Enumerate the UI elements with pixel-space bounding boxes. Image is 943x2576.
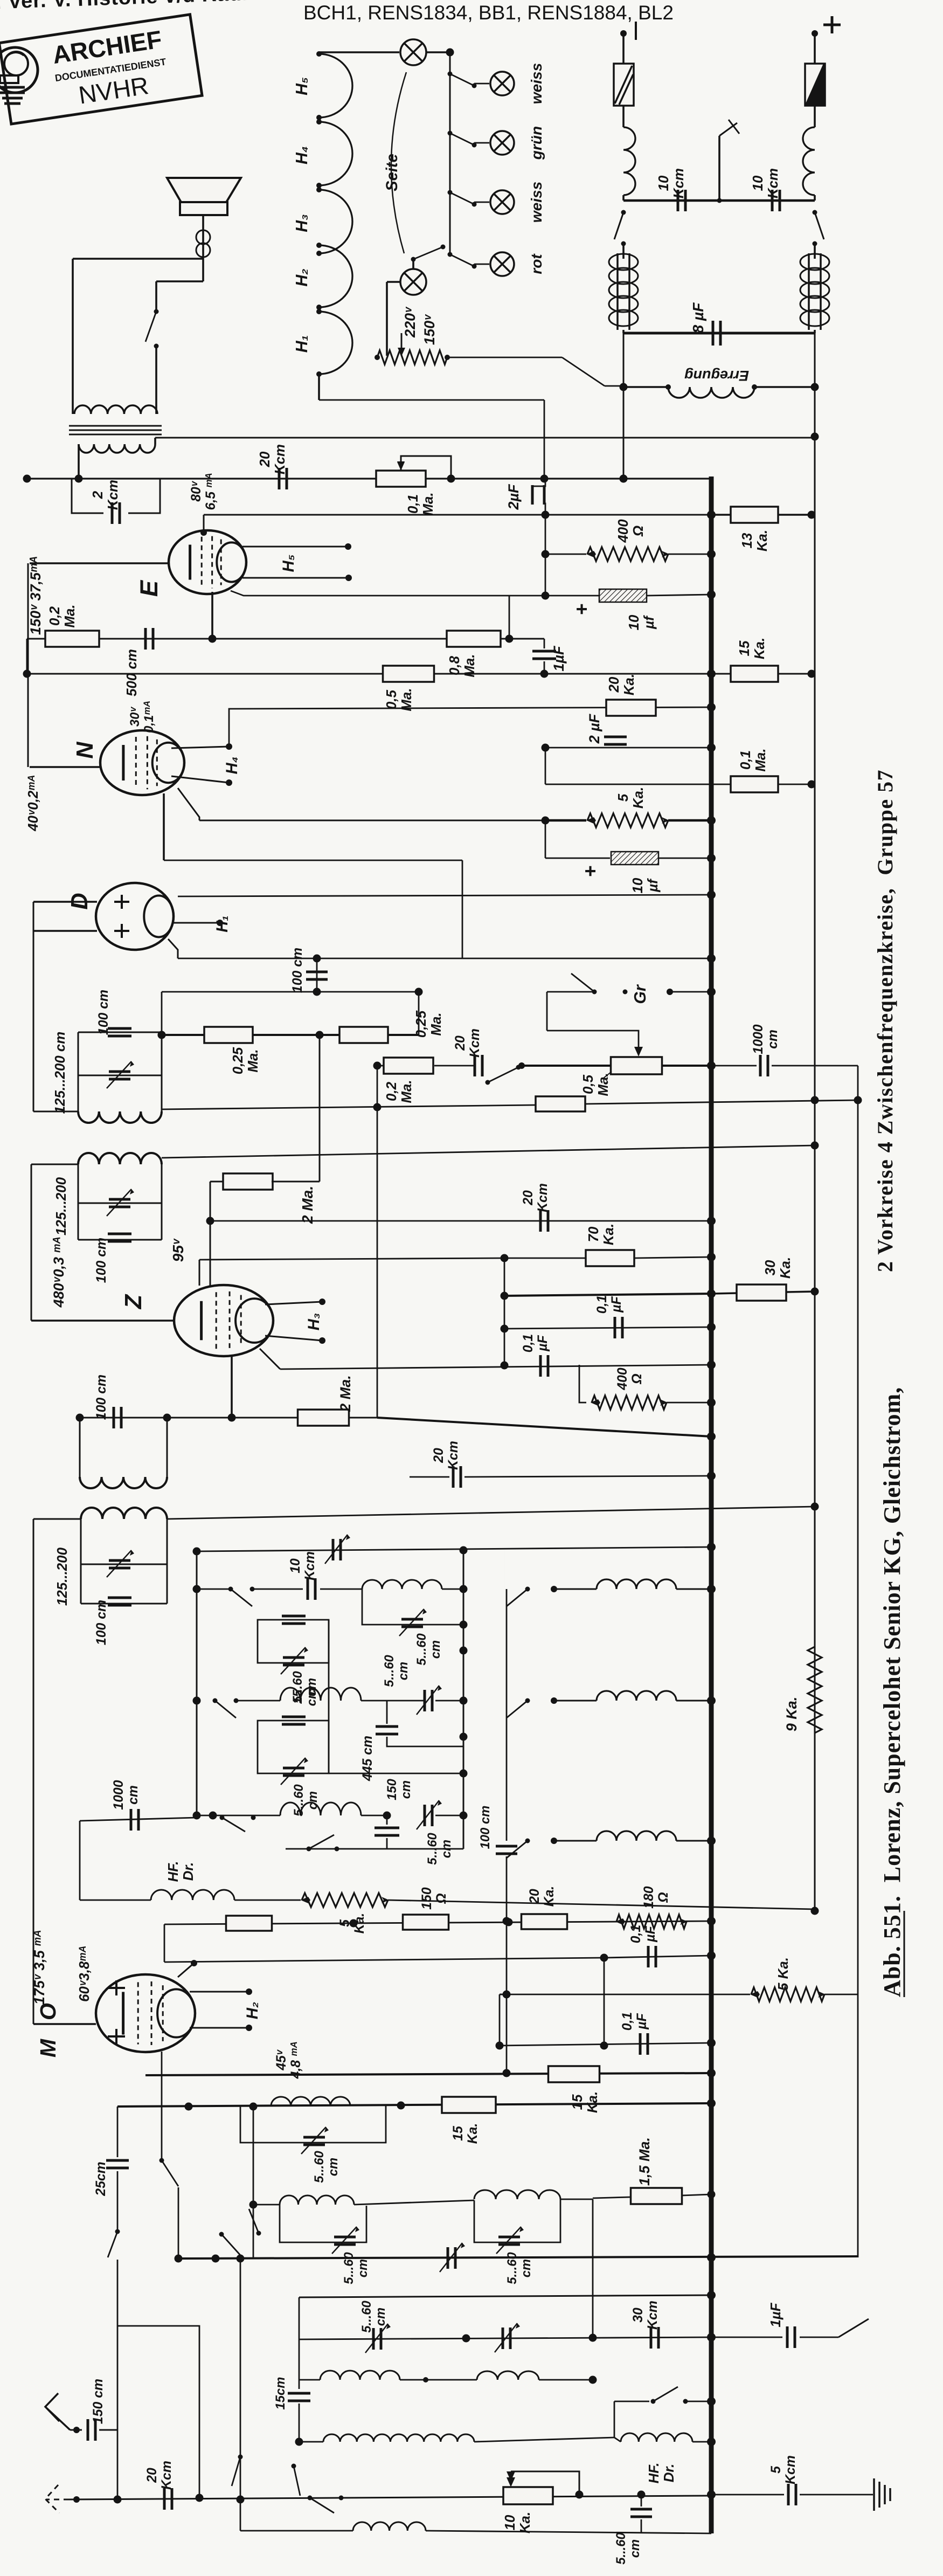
wire band rail (178, 2256, 858, 2259)
junction (23, 475, 31, 483)
junction (163, 1414, 171, 1422)
wire (814, 33, 816, 64)
junction (708, 2333, 716, 2342)
oscillator coil (280, 1688, 361, 1701)
svg-text:1µF: 1µF (551, 645, 567, 672)
switch speaker (154, 309, 159, 314)
wire (585, 1100, 858, 1104)
junction (501, 1362, 509, 1370)
junction (707, 669, 716, 678)
resistor (45, 631, 99, 647)
svg-text:N: N (72, 742, 98, 759)
svg-text:125...200: 125...200 (54, 1177, 69, 1235)
svg-text:Ma.: Ma. (596, 1073, 611, 1096)
junction (228, 1414, 236, 1422)
wire (171, 776, 229, 783)
coil (79, 444, 155, 453)
wire (78, 1075, 162, 1076)
junction (246, 1988, 252, 1995)
resistor (611, 1057, 662, 1074)
wire (197, 1815, 280, 1817)
fuse Si1 (614, 64, 634, 106)
coil (353, 2522, 426, 2531)
trimmer capacitor (498, 2237, 520, 2244)
wire (155, 281, 157, 310)
wire (79, 1821, 81, 1900)
tube (169, 530, 246, 594)
resistor (226, 1916, 272, 1931)
wire (418, 992, 420, 1035)
svg-text:0,1: 0,1 (629, 1925, 643, 1943)
svg-text:Kcm: Kcm (273, 444, 288, 474)
wire (545, 784, 812, 785)
wire (400, 2379, 477, 2381)
svg-text:+: + (579, 865, 601, 876)
svg-text:Seite: Seite (384, 154, 401, 191)
wire (30, 562, 169, 564)
svg-text:2 Ma.: 2 Ma. (337, 1375, 353, 1412)
label 10 µf (627, 614, 657, 630)
svg-text:150ᵛ: 150ᵛ (421, 314, 438, 345)
svg-text:H₄: H₄ (224, 757, 241, 775)
wire (667, 1402, 711, 1404)
junction (707, 816, 716, 825)
resistor (606, 700, 656, 716)
capacitor (713, 321, 720, 346)
wire (299, 2404, 300, 2442)
wire (500, 2043, 711, 2046)
svg-text:5: 5 (769, 2465, 783, 2474)
svg-text:0,5: 0,5 (581, 1074, 596, 1094)
wire (155, 346, 157, 414)
junction (460, 1733, 468, 1741)
wire (426, 51, 450, 53)
HF choke 2 (621, 2433, 692, 2442)
wire (386, 1838, 388, 1849)
svg-text:Kcm: Kcm (671, 168, 687, 198)
wire (814, 1910, 815, 1911)
label HF. Dr. (647, 2463, 677, 2484)
label 0,25 Ma. (231, 1047, 261, 1074)
loudspeaker (167, 178, 241, 215)
switch left branch (621, 210, 626, 215)
wire (426, 2531, 711, 2533)
label 5...60 cm (290, 1671, 319, 1703)
wire bias rail (504, 1294, 711, 1296)
label 5...60 cm (425, 1833, 454, 1865)
padder block A (258, 1620, 329, 1663)
resistor (731, 776, 778, 792)
wire (682, 2194, 711, 2195)
wire (622, 106, 625, 127)
svg-text:Ma.: Ma. (63, 604, 78, 627)
label 1000 cm (112, 1780, 141, 1810)
wire (81, 1564, 167, 1565)
capacitor (772, 190, 780, 211)
junction (540, 670, 549, 678)
junction (158, 1031, 166, 1039)
switch (308, 2496, 313, 2501)
svg-text:5 Ka.: 5 Ka. (776, 1957, 791, 1991)
trimmer capacitor (334, 2237, 356, 2244)
junction (345, 575, 352, 581)
wire (26, 639, 28, 674)
wire (605, 385, 623, 387)
junction (460, 1546, 468, 1555)
junction (397, 2102, 405, 2110)
capacitor (615, 1317, 622, 1338)
wire (197, 1589, 231, 1590)
svg-text:Kcm: Kcm (446, 1441, 461, 1470)
wire (190, 1991, 249, 1993)
wire (78, 1032, 162, 1033)
wire (711, 2337, 782, 2338)
trimmer capacitor (401, 1619, 423, 1627)
wire pickup column (377, 1066, 378, 1418)
junction (708, 817, 716, 825)
svg-text:H₂: H₂ (293, 268, 311, 286)
junction (503, 2069, 511, 2077)
junction (620, 475, 628, 483)
junction (75, 475, 83, 483)
svg-text:H₁: H₁ (214, 915, 231, 932)
wire (202, 215, 204, 281)
wire (447, 357, 562, 358)
stamp logo (0, 47, 38, 103)
svg-text:Kcm: Kcm (646, 2301, 660, 2330)
wire (622, 330, 625, 333)
resistor (442, 2097, 496, 2113)
svg-text:0,1ᵐᴬ: 0,1ᵐᴬ (142, 701, 156, 733)
label 20 Kcm (432, 1441, 461, 1470)
junction (503, 1991, 511, 1999)
svg-text:15: 15 (290, 1689, 305, 1704)
wire detector output rail (162, 1034, 419, 1036)
resistor (587, 547, 668, 561)
wire (434, 1065, 474, 1067)
wire (622, 254, 625, 259)
wire (156, 280, 203, 282)
junction (707, 1323, 716, 1331)
resistor (586, 1250, 634, 1266)
heater H4 (319, 122, 352, 185)
junction (811, 1288, 819, 1296)
trimmer capacitor (333, 1539, 341, 1560)
label 5...60 cm (342, 2252, 370, 2284)
svg-text:500 cm: 500 cm (124, 649, 140, 696)
svg-text:15: 15 (570, 2094, 585, 2110)
wire (634, 1257, 711, 1258)
wire (504, 1327, 711, 1329)
junction (226, 779, 232, 786)
junction (707, 2397, 716, 2406)
svg-text:0,25: 0,25 (231, 1047, 246, 1074)
label 15 Ka. (570, 2091, 600, 2113)
wire to bus (377, 1418, 711, 1437)
svg-text:Ω: Ω (656, 1892, 671, 1903)
junction (707, 1585, 716, 1593)
junction (193, 1585, 201, 1593)
wire AVC to IF2 (162, 1145, 815, 1158)
wire (319, 51, 399, 53)
svg-text:H₄: H₄ (293, 146, 311, 164)
svg-text:Kcm: Kcm (783, 2455, 798, 2484)
coil (151, 1890, 234, 1900)
wire (117, 2107, 119, 2157)
wire screen Z (199, 1258, 504, 1260)
junction (237, 2496, 245, 2504)
wire (499, 1994, 501, 2046)
junction (462, 2335, 470, 2343)
label 20 Kcm (521, 1183, 550, 1212)
junction (501, 1325, 509, 1333)
resistor (731, 507, 778, 523)
wire (544, 400, 545, 479)
wire (199, 1260, 200, 1286)
junction (505, 635, 514, 643)
capacitor (279, 468, 287, 489)
antenna coil (320, 2371, 400, 2380)
wire (236, 1700, 280, 1702)
label 0,1 Ma. (406, 492, 436, 515)
svg-text:1µF: 1µF (768, 2302, 783, 2327)
switch lamp row (448, 190, 453, 195)
capacitor (308, 1578, 315, 1600)
wire grid4 M (164, 1958, 604, 1962)
trimmer capacitor (425, 1690, 432, 1711)
wire (99, 2429, 117, 2431)
ground (874, 2478, 890, 2511)
wire (670, 991, 711, 993)
trimmer capacitor (448, 2247, 455, 2269)
junction (423, 2377, 428, 2382)
wire (474, 142, 489, 144)
svg-text:Gr: Gr (632, 984, 649, 1004)
wire (410, 1476, 449, 1478)
wire AVC rail (199, 820, 545, 821)
wire (614, 2437, 621, 2442)
svg-text:220ᵛ: 220ᵛ (402, 306, 418, 338)
junction (707, 2291, 716, 2299)
svg-text:5...60: 5...60 (614, 2532, 628, 2565)
resistor (339, 1027, 388, 1043)
svg-text:8 µF: 8 µF (690, 302, 706, 334)
label 5...60 cm (382, 1655, 411, 1687)
diode plates (114, 895, 129, 938)
junction (600, 1954, 608, 1962)
capacitor (108, 1598, 131, 1605)
junction (295, 2438, 303, 2446)
label 30ᵛ 0,1ᵐᴬ (128, 701, 156, 733)
svg-text:Ω: Ω (630, 1373, 644, 1384)
wire screen divider vertical (545, 515, 546, 596)
svg-text:125...200: 125...200 (55, 1547, 70, 1606)
wire (210, 1182, 211, 1221)
svg-text:Ka.: Ka. (752, 638, 767, 659)
label 5...60 cm (505, 2252, 533, 2284)
wire (79, 1418, 81, 1477)
label 30 Ka. (763, 1257, 793, 1279)
wire (33, 2023, 96, 2025)
junction (518, 1062, 525, 1069)
wire antenna rail (167, 1507, 815, 1519)
wire (386, 1815, 388, 1825)
switch (413, 247, 443, 259)
wire (544, 503, 545, 515)
junction (175, 2255, 183, 2263)
wire (318, 52, 320, 54)
junction (542, 550, 550, 558)
junction (589, 2334, 597, 2342)
wire (658, 858, 711, 859)
wire lamp selector (449, 52, 451, 252)
capacitor (375, 1828, 399, 1835)
wire (545, 747, 711, 749)
switch pickup (488, 1067, 518, 1082)
wire (234, 1900, 301, 1901)
wire (623, 386, 668, 388)
coil (362, 1580, 442, 1589)
wire (33, 1518, 81, 1520)
wire 2Km loop (72, 479, 103, 513)
wire (72, 259, 74, 414)
wire (386, 282, 388, 356)
label 20 Ka. (528, 1886, 557, 1907)
arrow 220V tap (401, 333, 403, 353)
wire rail 888 (27, 478, 711, 479)
svg-text:30ᵛ: 30ᵛ (128, 707, 142, 727)
svg-text:Kcm: Kcm (303, 1551, 317, 1580)
junction (193, 1812, 201, 1820)
wire (504, 1258, 586, 1259)
wire (622, 195, 625, 201)
wire (545, 748, 546, 784)
coil (78, 1111, 162, 1123)
wire rail 4262 (299, 2295, 711, 2297)
wire (824, 1994, 858, 1995)
junction (620, 383, 628, 391)
coil (597, 1691, 676, 1701)
junction (708, 891, 716, 899)
coil (597, 1579, 676, 1589)
capacitor (630, 2509, 652, 2517)
resistor (592, 1396, 667, 1410)
wire (778, 514, 812, 516)
label 20 Kcm (453, 1028, 482, 1058)
junction (447, 475, 455, 483)
oscillator coil (271, 2097, 350, 2106)
switch (256, 2231, 261, 2236)
label 5 Ka. (338, 1913, 367, 1934)
label 5...60 cm (292, 1784, 320, 1817)
svg-text:30: 30 (631, 2308, 646, 2323)
wire (117, 2260, 119, 2326)
junction (600, 2042, 608, 2050)
wire anode Z (280, 1365, 711, 1369)
junction (708, 1253, 716, 1261)
svg-text:Ma.: Ma. (753, 748, 768, 771)
junction (708, 988, 716, 996)
wire (676, 1589, 711, 1590)
label 0,2 Ma. (47, 604, 78, 627)
coil (80, 1477, 167, 1488)
label 400 Ω (616, 519, 646, 543)
svg-text:H₂: H₂ (244, 2002, 261, 2019)
switch right branch (813, 210, 817, 215)
svg-text:125...200 cm: 125...200 cm (53, 1032, 68, 1114)
wire (474, 2199, 560, 2242)
capacitor (282, 1717, 306, 1724)
svg-text:480ᵛ0,3 ᵐᴬ: 480ᵛ0,3 ᵐᴬ (51, 1237, 67, 1308)
resistor (808, 1647, 822, 1733)
svg-text:Ka.: Ka. (466, 2123, 480, 2144)
svg-text:Ka.: Ka. (755, 530, 770, 551)
svg-text:445 cm: 445 cm (360, 1736, 375, 1781)
label 0,1 µF (521, 1334, 550, 1352)
junction (708, 1062, 716, 1070)
label 10 µf (630, 878, 661, 893)
wire (361, 1700, 424, 1702)
svg-text:15cm: 15cm (273, 2377, 288, 2410)
junction (708, 1952, 716, 1960)
capacitor (108, 1028, 131, 1036)
output transformer core (69, 426, 162, 434)
wire (560, 2199, 593, 2200)
wire (78, 1164, 79, 1240)
resistor (204, 1027, 253, 1043)
wire osc feed (500, 1994, 750, 1995)
coupling coil (525, 1698, 530, 1703)
antenna coil (477, 2371, 539, 2380)
junction (345, 543, 351, 550)
electrolytic capacitor (599, 589, 647, 602)
wire (547, 1031, 639, 1050)
resistor (751, 1987, 824, 2001)
lamp (490, 190, 514, 214)
svg-text:20: 20 (432, 1448, 446, 1463)
capacitor (164, 2488, 172, 2510)
svg-text:Kcm: Kcm (468, 1028, 482, 1058)
wire (80, 1900, 151, 1901)
wire (354, 2200, 474, 2205)
svg-text:Kcm: Kcm (536, 1183, 550, 1212)
svg-text:10: 10 (751, 175, 766, 191)
junction (114, 2496, 122, 2504)
svg-text:95ᵛ: 95ᵛ (170, 1238, 186, 1262)
junction (446, 49, 454, 57)
wire (500, 1994, 507, 1995)
wire (81, 1603, 167, 1605)
svg-text:5...60: 5...60 (359, 2301, 374, 2333)
svg-text:weiss: weiss (528, 63, 545, 105)
coil (597, 1831, 676, 1841)
resistor (549, 2066, 600, 2082)
junction (707, 703, 716, 712)
long wave coil (323, 2434, 474, 2442)
svg-text:150 cm: 150 cm (91, 2379, 106, 2424)
svg-text:400: 400 (616, 519, 631, 543)
svg-text:cm: cm (428, 1640, 443, 1659)
heater H5 (319, 54, 352, 118)
junction (854, 1096, 862, 1104)
junction (707, 1917, 716, 1925)
svg-text:10: 10 (288, 1558, 303, 1573)
svg-text:20: 20 (258, 451, 273, 467)
wire block column (328, 1620, 330, 1773)
wire (211, 592, 213, 639)
junction (707, 2490, 716, 2499)
junction (707, 1253, 716, 1261)
